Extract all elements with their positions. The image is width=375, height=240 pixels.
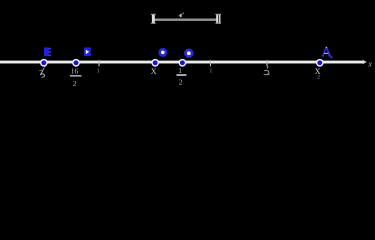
svg-text:1: 1 [97, 68, 100, 75]
svg-text:X: X [151, 67, 157, 76]
svg-text:16: 16 [71, 67, 79, 76]
glyph under dot 1 [39, 66, 45, 78]
wire: number line [0, 60, 364, 64]
node: tick 3 [266, 60, 268, 66]
svg-text:x: x [367, 58, 372, 68]
node: I-beam right cap [216, 14, 218, 24]
label B [44, 47, 51, 56]
svg-text:1: 1 [209, 68, 212, 75]
label O ring 1 [161, 51, 165, 55]
node: I-beam label [179, 13, 184, 17]
node: tick 2 [210, 60, 212, 66]
wire: interval I-beam bar [155, 19, 217, 21]
point dot 4 [179, 59, 187, 67]
svg-text:2: 2 [317, 75, 320, 81]
point dot 5 [316, 59, 324, 67]
svg-text:2: 2 [179, 78, 183, 87]
label O ring 2 [187, 51, 191, 55]
point dot 1 [40, 59, 48, 67]
label D [84, 47, 91, 56]
node: I-beam left cap [152, 14, 155, 24]
point dot 3 [151, 59, 159, 67]
svg-text:1: 1 [178, 66, 182, 75]
point dot 2 [72, 59, 80, 67]
node: right axis arrowhead [362, 60, 367, 65]
node: tick 1 [98, 60, 100, 66]
svg-text:2: 2 [73, 79, 77, 88]
label A [321, 47, 330, 57]
